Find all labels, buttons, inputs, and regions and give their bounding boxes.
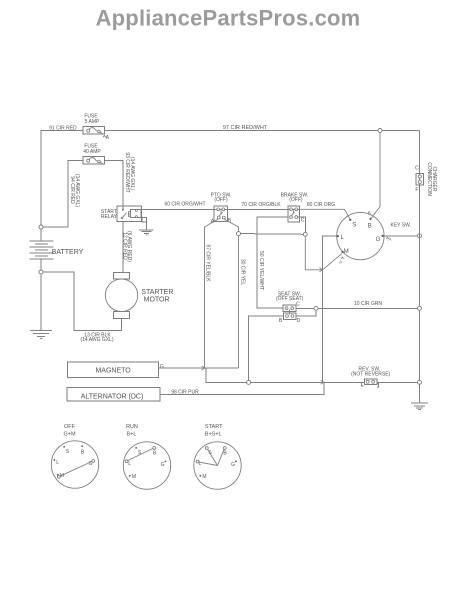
wire 98 CIR PUR: alternator to kill line xyxy=(160,382,324,395)
svg-text:(14 AWG GXL): (14 AWG GXL) xyxy=(74,174,80,207)
svg-text:L: L xyxy=(56,460,59,466)
svg-text:A: A xyxy=(388,237,391,242)
wire kill line jog xyxy=(206,368,246,382)
svg-text:70 CIR ORG/BLK: 70 CIR ORG/BLK xyxy=(241,202,281,208)
svg-text:(14 AWG GXL): (14 AWG GXL) xyxy=(80,337,113,343)
svg-text:S: S xyxy=(66,449,70,455)
svg-text:98 CIR PUR: 98 CIR PUR xyxy=(171,390,199,396)
svg-text:G: G xyxy=(231,462,235,468)
wire 97 CIR RED/WHT: fuse to top-right rail xyxy=(104,125,419,131)
svg-text:M: M xyxy=(344,249,349,255)
svg-text:OFF: OFF xyxy=(64,424,76,430)
svg-text:(OFF): (OFF) xyxy=(289,197,303,203)
wire 10 CIR GRN: seat to right rail xyxy=(318,301,419,308)
wire kill line to rev switch xyxy=(251,381,365,383)
junction arrow 97 YEL/BLK at magneto xyxy=(202,366,205,370)
svg-text:97 CIR YEL/BLK: 97 CIR YEL/BLK xyxy=(205,244,211,282)
svg-text:G: G xyxy=(160,364,164,370)
svg-text:(6 AWG RED): (6 AWG RED) xyxy=(126,231,132,262)
svg-text:M: M xyxy=(132,474,136,480)
svg-text:CHARGER: CHARGER xyxy=(431,166,437,191)
relay K1 START RELAY xyxy=(101,206,142,222)
svg-text:AppliancePartsPros.com: AppliancePartsPros.com xyxy=(96,6,361,31)
wire node to brake C node xyxy=(241,233,306,236)
key position diagram OFF xyxy=(51,424,98,488)
node brake C xyxy=(303,232,307,236)
key position diagram RUN xyxy=(123,424,170,489)
svg-text:MOTOR: MOTOR xyxy=(144,297,170,304)
wire magneto to kill line xyxy=(159,367,239,369)
svg-text:F: F xyxy=(415,187,418,193)
svg-text:B: B xyxy=(368,224,372,230)
svg-text:START: START xyxy=(205,424,223,430)
ground right rail xyxy=(411,403,428,409)
switch S2 BRAKE SW. (OFF) xyxy=(281,192,309,223)
wire key G to right rail xyxy=(384,235,417,237)
wire seat C to node xyxy=(296,307,314,309)
svg-text:A: A xyxy=(106,135,110,141)
svg-text:G: G xyxy=(376,237,381,243)
wire 94 CIR RED: 40A fuse to battery node xyxy=(43,161,83,228)
svg-text:B+L: B+L xyxy=(127,432,137,438)
svg-text:S: S xyxy=(352,223,356,229)
wire right rail xyxy=(419,131,421,404)
key switch SW1 xyxy=(337,211,411,265)
svg-text:C: C xyxy=(415,166,419,172)
svg-text:60 CIR ORG/WHT: 60 CIR ORG/WHT xyxy=(164,201,205,207)
svg-text:B+S+L: B+S+L xyxy=(205,432,222,438)
wire key L down xyxy=(323,236,340,382)
wire 80 CIR ORG: brake switch to key switch S xyxy=(300,202,350,219)
node seat B at kill line xyxy=(247,380,251,384)
svg-text:50 CIR YEL/WHT: 50 CIR YEL/WHT xyxy=(258,251,264,290)
svg-text:(OFF): (OFF) xyxy=(214,197,228,203)
node at top rail for key B xyxy=(378,129,382,133)
node kill line at rail xyxy=(418,380,422,384)
fuse F1 5 AMP xyxy=(83,113,110,141)
node 10 CIR GRN at rail xyxy=(418,306,422,310)
ground battery xyxy=(30,331,52,339)
svg-text:(NOT REVERSE): (NOT REVERSE) xyxy=(351,371,390,377)
connector charger connection xyxy=(415,162,437,196)
wire brake C node to key M xyxy=(305,237,342,270)
node battery positive xyxy=(39,225,43,229)
svg-text:B: B xyxy=(279,318,283,324)
svg-text:RELAY: RELAY xyxy=(101,214,118,220)
wire 70 CIR ORG/BLK: PTO to brake switch xyxy=(228,202,289,209)
svg-text:BATTERY: BATTERY xyxy=(52,249,84,256)
svg-text:5 AMP: 5 AMP xyxy=(85,119,100,125)
svg-text:KEY SW.: KEY SW. xyxy=(391,222,411,228)
wire battery negative to ground xyxy=(40,274,42,330)
svg-text:B: B xyxy=(368,211,371,216)
svg-text:ALTERNATOR (DC): ALTERNATOR (DC) xyxy=(81,393,144,400)
svg-text:L: L xyxy=(128,461,131,467)
svg-text:B: B xyxy=(223,451,227,457)
node PTO B / brake C tie xyxy=(237,232,241,236)
alternator box xyxy=(67,388,160,401)
svg-text:M: M xyxy=(202,474,206,480)
svg-text:D: D xyxy=(297,318,301,324)
svg-text:STARTER: STARTER xyxy=(141,289,173,296)
wire seat B down to kill line xyxy=(249,316,284,380)
svg-text:G: G xyxy=(161,462,165,468)
svg-text:G+M: G+M xyxy=(63,432,75,438)
magneto box xyxy=(68,362,164,378)
svg-text:C: C xyxy=(296,301,300,307)
svg-text:80 CIR ORG: 80 CIR ORG xyxy=(307,202,335,208)
wire 50 CIR YEL/WHT: brake to seat switch xyxy=(257,217,288,308)
key position diagram START xyxy=(194,424,241,489)
svg-text:97 CIR RED/WHT: 97 CIR RED/WHT xyxy=(223,125,268,131)
battery B1 xyxy=(30,229,84,270)
junction arrow at L wire crossing xyxy=(320,268,323,272)
motor M1 STARTER MOTOR xyxy=(105,273,173,319)
svg-text:30 CIR YEL: 30 CIR YEL xyxy=(240,259,246,286)
switch S3 SEAT SW. (OFF SEAT) xyxy=(276,291,304,324)
ground start relay xyxy=(139,230,154,235)
wire PTO B down 30 CIR YEL xyxy=(224,219,246,368)
svg-text:(14 AWG GXL): (14 AWG GXL) xyxy=(129,157,135,190)
switch S4 REV. SW. (NOT REVERSE) xyxy=(351,367,390,388)
switch S1 PTO SW. (OFF) xyxy=(211,192,232,224)
svg-text:91 CIR RED: 91 CIR RED xyxy=(49,125,77,131)
svg-text:RUN: RUN xyxy=(126,424,138,430)
wire brake C down xyxy=(297,217,305,232)
wire seat D to node xyxy=(296,311,316,317)
svg-text:B: B xyxy=(153,451,157,457)
fuse F2 40 AMP xyxy=(83,143,105,164)
node battery negative xyxy=(39,270,43,274)
wire 12 CIR RED: relay to starter motor xyxy=(122,222,133,273)
wire relay to ground xyxy=(142,217,147,229)
svg-text:MAGNETO: MAGNETO xyxy=(95,367,131,374)
node seat output xyxy=(314,306,318,310)
wire 91 CIR RED: battery+ to 5A fuse xyxy=(41,125,83,227)
junction arrow at L wire join xyxy=(321,380,324,384)
svg-text:B: B xyxy=(81,450,85,456)
svg-text:40 AMP: 40 AMP xyxy=(83,149,101,155)
svg-text:10 CIR GRN: 10 CIR GRN xyxy=(354,301,382,307)
wire 13 CIR BLK: starter motor to battery negative xyxy=(43,272,121,343)
wire rev switch to rail xyxy=(377,381,418,383)
svg-text:A: A xyxy=(339,260,342,265)
wire 60 CIR ORG/WHT: relay to PTO switch xyxy=(142,201,215,209)
wire 93 CIR RED/WHT: 40A fuse to start relay xyxy=(104,152,135,206)
wire PTO A to magneto net 97 CIR YEL/BLK xyxy=(205,219,219,368)
node key G at rail xyxy=(418,234,422,238)
svg-text:C: C xyxy=(301,218,305,224)
svg-text:L: L xyxy=(341,235,345,241)
wire key B from top rail xyxy=(371,133,380,219)
